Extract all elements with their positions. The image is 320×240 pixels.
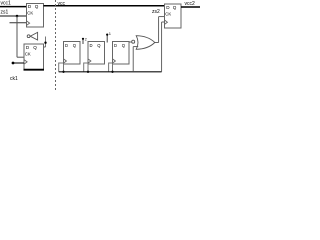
svg-text:vcc2: vcc2 — [185, 1, 196, 7]
wire zs1 into U2 pin — [17, 56, 24, 58]
wire zs1 to U1 pin CK — [0, 15, 27, 17]
wire U3c bottom drop — [112, 64, 114, 72]
inverter G1 — [30, 32, 37, 40]
svg-text:CK: CK — [27, 11, 33, 16]
wire zs1 vertical to U2 — [16, 16, 18, 57]
wire vcc1 to U1 pin D — [0, 6, 27, 8]
wire U1 clock wedge stub — [10, 22, 27, 24]
wire U4 Q to vcc2 — [181, 6, 200, 8]
svg-text:CK: CK — [165, 12, 171, 17]
svg-text:D: D — [65, 43, 68, 48]
U1 clock wedge — [27, 21, 30, 26]
flip-flop U4 body — [165, 4, 182, 28]
inverter G1 bubble — [27, 35, 30, 38]
wire G2 lower input drop to bus — [132, 47, 134, 72]
wire bus riser to U4 — [161, 22, 163, 72]
wire U3b bottom drop — [87, 64, 89, 72]
clock bus wire — [59, 71, 162, 73]
G2 input bubble — [132, 40, 135, 43]
svg-text:CK: CK — [25, 52, 31, 57]
flip-flop U1 body — [27, 4, 44, 28]
wire ck into U2 clock — [13, 62, 25, 64]
svg-text:D: D — [114, 43, 117, 48]
background — [0, 0, 200, 90]
flip-flop U2 body — [24, 44, 44, 70]
U3b clock wedge — [88, 59, 91, 63]
wire G2 output riser to U4 — [158, 17, 160, 43]
svg-text:zs2: zs2 — [152, 9, 160, 15]
wire U3a bottom drop — [63, 64, 65, 72]
wire G2 output — [155, 42, 159, 44]
svg-text:zs1: zs1 — [1, 10, 9, 16]
U2 bottom edge thick — [24, 69, 45, 71]
U3c clock wedge — [113, 59, 116, 63]
svg-text:ck1: ck1 — [10, 76, 18, 82]
svg-text:D: D — [90, 43, 93, 48]
junction dot on U2 Q net — [44, 42, 46, 44]
svg-text:Q: Q — [33, 45, 37, 50]
U3a clock wedge — [64, 59, 67, 63]
wire U2 Q stub — [44, 46, 46, 48]
node stub between U3b and U3c — [106, 35, 108, 43]
terminal dot on ck wire — [12, 62, 15, 65]
nor gate G2 body — [136, 36, 155, 50]
wire U3c clock L from bus — [109, 63, 113, 72]
stub dot — [82, 38, 84, 40]
U4 clock wedge — [165, 20, 168, 24]
U2 clock wedge — [24, 60, 27, 65]
wire G2 output into U4 pin CK — [159, 16, 165, 18]
wire U3b clock L from bus — [84, 63, 88, 72]
junction dot bus at U3b — [87, 71, 89, 73]
stub dot — [106, 34, 108, 36]
flip-flop U3b body — [88, 42, 105, 65]
svg-text:Q: Q — [35, 4, 39, 9]
junction dot bus at U3a — [62, 71, 64, 73]
svg-text:Q: Q — [173, 5, 177, 10]
svg-text:2: 2 — [85, 37, 87, 41]
flip-flop U3c body — [113, 42, 130, 65]
wire U3a clock L from bus — [59, 63, 64, 72]
wire U1 Q to U4 D (net vcc) — [44, 5, 165, 7]
boundary dashed line — [55, 0, 57, 90]
junction dot on zs1 net — [16, 15, 19, 18]
junction dot bus at U3c — [111, 71, 113, 73]
wire U3c Q to G2 bubble — [129, 41, 132, 43]
svg-text:vcc: vcc — [58, 1, 66, 7]
node stub between U3a and U3b — [82, 39, 84, 44]
wire G1 input vertical from U2 Q — [45, 37, 47, 48]
wire G2 lower input horizontal — [133, 46, 138, 48]
svg-text:vcc1: vcc1 — [1, 1, 12, 7]
wire bus riser into U4 wedge pin — [162, 21, 165, 23]
flip-flop U3a body — [64, 42, 81, 65]
